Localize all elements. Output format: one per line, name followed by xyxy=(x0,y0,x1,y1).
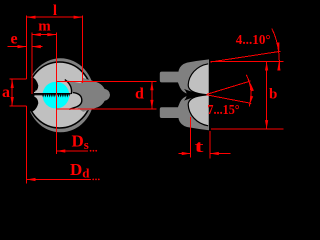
rope (cyan) xyxy=(43,82,70,109)
sheave outer rim (dark gray) xyxy=(27,58,95,132)
t arrows (outside) xyxy=(182,152,191,155)
groove contour stripe 1 (gray) xyxy=(38,88,45,89)
groove lower lobe outline xyxy=(188,95,208,126)
sheave cut face (light gray disc) xyxy=(28,62,92,128)
arrowheads e (outside) xyxy=(18,45,27,48)
arrowhead Ds xyxy=(56,149,65,152)
svg-text:7...15°: 7...15° xyxy=(207,103,239,118)
dimension e tails xyxy=(8,46,27,48)
extension line B x=32 xyxy=(31,33,33,95)
arrowheads m xyxy=(32,33,41,36)
arrowheads a xyxy=(11,79,14,88)
fan arc arrow lower xyxy=(250,96,254,105)
far-flange dark region right of rope xyxy=(67,78,110,112)
seat boundary arc upper (black) xyxy=(65,80,72,94)
t extension line right xyxy=(209,131,211,159)
t extension line left xyxy=(190,117,192,158)
dimension m line xyxy=(32,34,57,36)
groove contour stripe 4 (gray) xyxy=(35,95,44,96)
groove contour stripe 3 (gray) xyxy=(34,92,45,93)
dimension a ticks xyxy=(10,78,27,80)
dimension Ds line xyxy=(56,150,88,152)
b bottom arrow xyxy=(265,120,268,129)
b top line xyxy=(211,61,284,63)
svg-text:l: l xyxy=(53,3,57,19)
dimension Dd line xyxy=(27,179,91,181)
svg-text:a: a xyxy=(2,84,10,101)
fan upper line xyxy=(207,81,251,94)
dimension l line xyxy=(27,16,83,18)
svg-text:e: e xyxy=(10,31,17,48)
svg-text:b: b xyxy=(269,87,277,103)
t tails xyxy=(178,153,190,155)
svg-text:t: t xyxy=(195,137,205,156)
b bottom line xyxy=(211,128,284,130)
extension line C x=56.3 xyxy=(55,33,57,155)
Ds dots xyxy=(90,150,92,152)
Dd dots xyxy=(92,179,94,181)
arrowhead on sloped line xyxy=(276,42,279,51)
groove opening notch (black) xyxy=(18,77,38,111)
dimension d arrow line xyxy=(151,81,153,109)
groove upper lobe (light gray) xyxy=(188,64,208,95)
b arrow line xyxy=(266,62,268,130)
arrowhead Dd xyxy=(27,178,36,181)
hub tail (dark gray) xyxy=(84,78,110,112)
4..10 sloped line xyxy=(211,51,281,62)
arrowheads l xyxy=(27,16,36,19)
flange body (dark gray) xyxy=(160,59,209,130)
dimension d lines xyxy=(56,80,156,82)
extension line D x=82.6 xyxy=(82,16,84,83)
extension line A x=26.5 lower xyxy=(26,106,28,184)
extension line A x=26.5 upper xyxy=(26,16,28,80)
dimension a arrow line xyxy=(11,79,13,106)
arrowheads d xyxy=(150,81,153,90)
groove contour stripe 5 (gray) xyxy=(38,97,45,98)
svg-text:m: m xyxy=(38,19,51,35)
groove gap wedge (black) xyxy=(184,89,207,101)
fan arc arrow upper xyxy=(250,82,254,91)
svg-text:d: d xyxy=(135,86,144,103)
groove upper lobe outline xyxy=(188,64,208,95)
4..10 angle arc xyxy=(272,29,280,71)
seat boundary arc lower (black) xyxy=(69,93,82,110)
rope hatch sawtooth (black) xyxy=(42,94,70,97)
groove lower lobe (light gray) xyxy=(188,95,208,126)
fan lower line xyxy=(207,95,252,104)
rope center slit (black) xyxy=(34,93,71,94)
fan angle arc xyxy=(246,75,251,107)
svg-text:4...10°: 4...10° xyxy=(236,33,271,48)
arrowhead up to b-top line (arc end) xyxy=(277,62,280,71)
groove contour stripe 2 (gray) xyxy=(35,90,44,91)
b top arrow xyxy=(265,62,268,71)
